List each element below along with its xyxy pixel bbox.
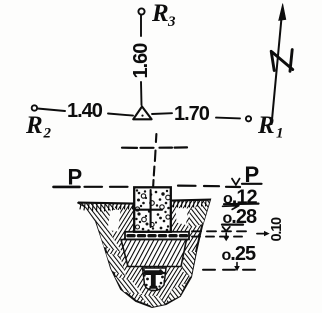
pillar cross mark bbox=[137, 190, 163, 227]
svg-text:R: R bbox=[151, 0, 169, 27]
triangle center dot bbox=[141, 115, 143, 117]
bottom level dashed line bbox=[203, 269, 256, 271]
ground level arrow right bbox=[223, 204, 239, 210]
bearing plate dashes bbox=[128, 234, 188, 237]
north arrow shaft bbox=[272, 19, 282, 124]
buried mark block bbox=[143, 268, 167, 291]
svg-text:1.40: 1.40 bbox=[67, 100, 103, 122]
rock bundle patch 5 bbox=[138, 295, 166, 307]
station triangle bbox=[133, 107, 151, 120]
base slab hatched bbox=[121, 240, 187, 267]
wire R3 to 1.60 bbox=[140, 15, 142, 36]
pillar stipple bbox=[135, 189, 170, 231]
chevron arrow above plate line bbox=[223, 227, 230, 231]
arrowhead down at P line bbox=[232, 179, 240, 185]
wire R2 to 1.40 bbox=[38, 109, 66, 112]
rock bundle patch 7 bbox=[182, 252, 196, 277]
bearing plate bbox=[125, 232, 189, 240]
rock bundle patch 3 bbox=[106, 253, 126, 276]
ground surface line left bbox=[78, 203, 134, 204]
north arrow head bbox=[279, 4, 286, 21]
P underline right bbox=[242, 183, 262, 185]
datum dashed line P left bbox=[85, 186, 128, 188]
buried mark stipple bbox=[143, 269, 166, 292]
wire 1.40 to triangle bbox=[108, 114, 133, 116]
ground surface line right bbox=[171, 200, 210, 201]
centerline cross horizontal dashes bbox=[122, 146, 187, 149]
wire triangle to 1.70 bbox=[152, 112, 172, 115]
rock excavation fill bbox=[78, 200, 210, 308]
svg-text:1.70: 1.70 bbox=[174, 103, 210, 125]
svg-text:0.10: 0.10 bbox=[269, 217, 285, 242]
small arrow down to plate bottom bbox=[225, 233, 227, 238]
rock bundle patch 6 bbox=[166, 283, 186, 303]
svg-text:1: 1 bbox=[276, 126, 284, 142]
datum dashed line P right bbox=[178, 186, 240, 187]
rock bundle patch 8 bbox=[188, 200, 210, 229]
svg-text:2: 2 bbox=[43, 126, 52, 142]
node R2 circle bbox=[32, 105, 37, 110]
letter N bbox=[271, 50, 293, 72]
plate bottom dashed line bbox=[192, 236, 246, 238]
rock bundle patch 2 bbox=[96, 216, 122, 252]
P underline left bbox=[54, 186, 80, 189]
svg-text:o.25: o.25 bbox=[222, 243, 256, 265]
svg-text:1.60: 1.60 bbox=[130, 43, 152, 79]
white gap left of pillar bbox=[108, 210, 121, 232]
buried mark T bbox=[146, 273, 161, 286]
pillar body bbox=[134, 187, 171, 232]
ground fringe left bbox=[80, 201, 206, 212]
svg-text:3: 3 bbox=[167, 14, 176, 30]
svg-text:R: R bbox=[25, 112, 43, 139]
centerline vertical dashed bbox=[153, 134, 156, 186]
plate top dashed line bbox=[192, 230, 246, 232]
0.28 underline bbox=[222, 224, 243, 226]
wire 1.70 to R1 bbox=[216, 117, 240, 120]
white gap right of pillar bbox=[176, 208, 189, 225]
rock bundle patch 1 bbox=[78, 203, 120, 222]
node R3 circle bbox=[138, 8, 144, 14]
wire 1.60 to triangle bbox=[140, 82, 143, 105]
arrow down to bottom line bbox=[236, 263, 238, 267]
arrow to 0.10 label bbox=[257, 233, 265, 235]
node R1 circle bbox=[246, 116, 251, 121]
0.12 underline bbox=[224, 203, 259, 206]
rock bundle patch 4 bbox=[115, 277, 143, 294]
